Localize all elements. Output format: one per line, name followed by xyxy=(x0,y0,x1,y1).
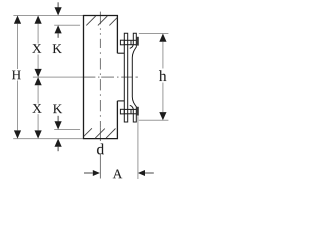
vertical center line (pipe axis, dash-dot) xyxy=(99,12,101,179)
bottom K extension line (flange inner edge) xyxy=(54,129,80,131)
hatching top band xyxy=(86,16,117,25)
X arrow down bottom xyxy=(35,130,42,138)
A label xyxy=(113,170,122,179)
top nut xyxy=(137,37,139,46)
flange body outline (section) xyxy=(84,16,118,139)
X dimension line top xyxy=(37,24,39,69)
K label bottom xyxy=(53,105,62,114)
bottom bolt head xyxy=(120,109,124,114)
X arrow down middle xyxy=(35,69,42,77)
A vertical extension line (clamp outer face) xyxy=(137,116,139,179)
K top up arrow xyxy=(55,25,62,33)
clamp bar2 bottom (outer strap lower end) xyxy=(130,105,137,122)
d label xyxy=(97,144,104,155)
A dimension left arrow xyxy=(84,172,93,174)
h dimension line xyxy=(162,42,164,112)
h arrow down xyxy=(159,112,166,120)
top bolt head xyxy=(120,40,124,45)
bottom nut xyxy=(137,107,139,116)
A dimension right arrow xyxy=(138,170,145,176)
h arrow up xyxy=(159,34,166,42)
top bolt shaft xyxy=(124,40,136,44)
bottom bolt shaft xyxy=(124,109,136,113)
X arrow up middle xyxy=(35,77,42,85)
body step bottom (to clamp) xyxy=(117,100,124,102)
top K extension line (flange inner edge) xyxy=(54,24,80,26)
middle extension line (axis level) xyxy=(33,76,84,78)
bottom extension line (flange bottom edge level) xyxy=(13,138,83,140)
K bottom up arrow xyxy=(55,139,62,147)
K label top xyxy=(53,44,62,53)
H dimension line xyxy=(17,24,19,131)
H label xyxy=(12,71,21,80)
K top down arrow xyxy=(57,2,59,8)
h top extension line xyxy=(139,33,169,35)
top extension line (flange top edge level) xyxy=(13,15,83,17)
h label xyxy=(159,70,166,81)
X label bottom xyxy=(33,104,42,113)
horizontal center line (dash-dot through clamp) xyxy=(84,76,138,78)
h bottom extension line xyxy=(139,119,169,121)
hatching bottom band xyxy=(84,128,116,138)
X arrow up top xyxy=(35,16,42,24)
H arrow up xyxy=(14,16,21,24)
X dimension line bottom xyxy=(37,85,39,130)
body step top (to clamp) xyxy=(117,52,124,54)
clamp strap S-curve (outer strap middle) xyxy=(132,46,136,107)
H arrow down xyxy=(14,130,21,138)
clamp bar2 top (outer strap upper end) xyxy=(130,33,137,48)
clamp bar1 (inner strap) xyxy=(124,33,127,122)
K bottom down arrow xyxy=(57,116,59,122)
X label top xyxy=(32,44,41,53)
